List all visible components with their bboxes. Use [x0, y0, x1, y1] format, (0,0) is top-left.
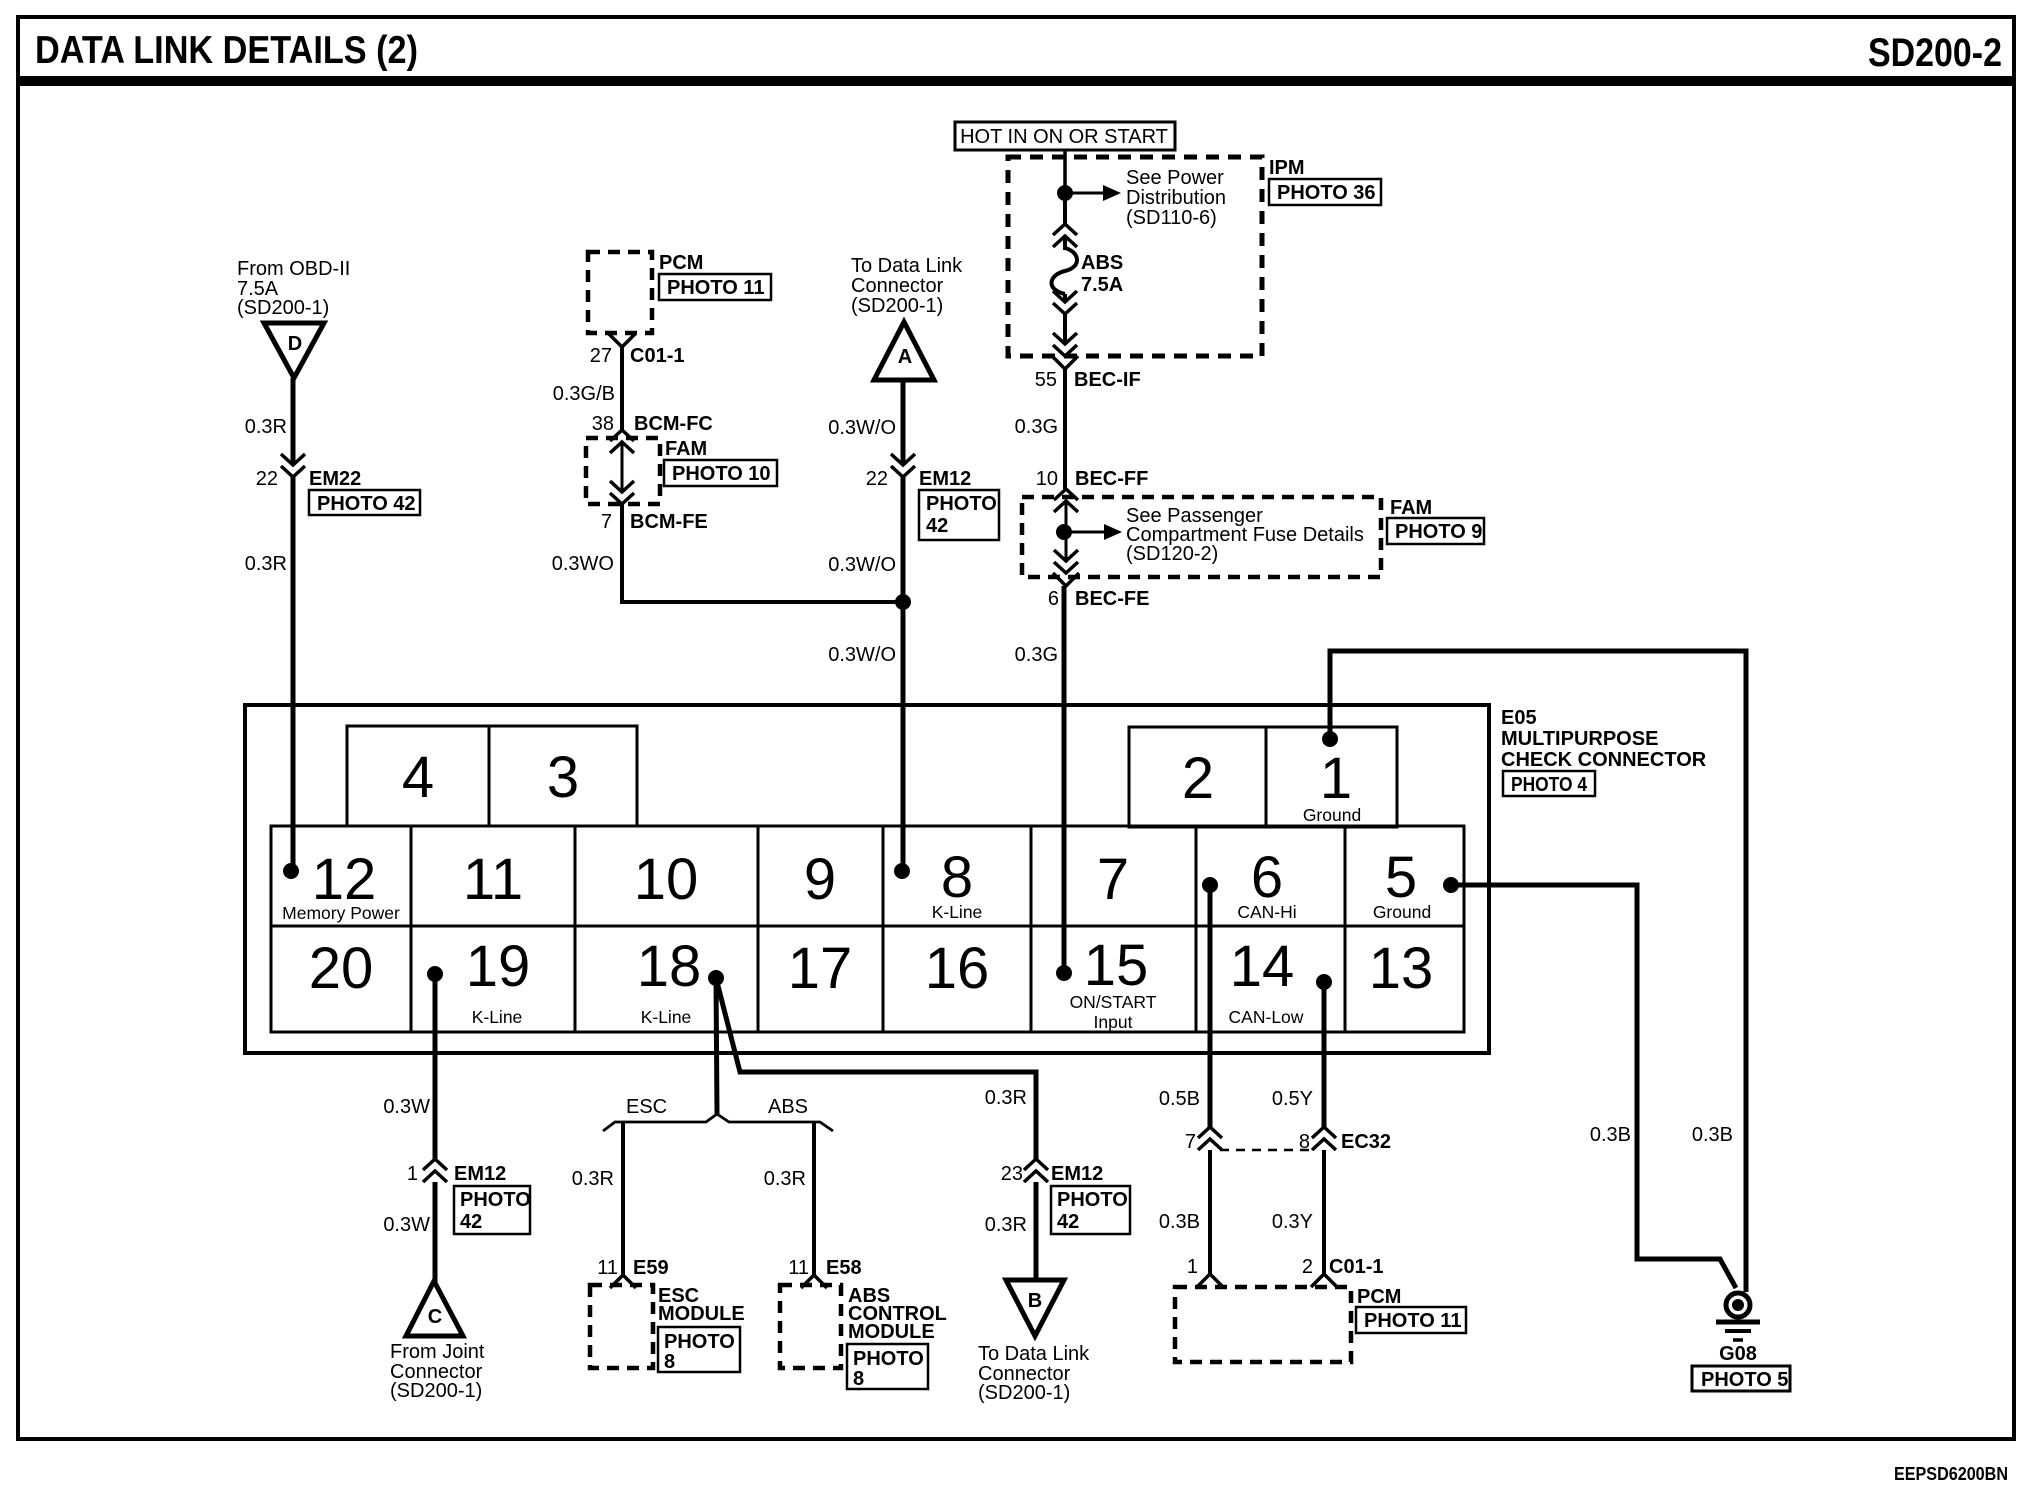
svg-text:11: 11: [463, 847, 523, 912]
photo ref PHOTO 8: [847, 1344, 928, 1389]
svg-text:9: 9: [804, 847, 836, 912]
svg-text:Ground: Ground: [1373, 902, 1431, 922]
svg-text:K-Line: K-Line: [472, 1007, 523, 1027]
svg-text:BEC-FE: BEC-FE: [1075, 588, 1149, 610]
svg-text:42: 42: [1057, 1211, 1079, 1233]
svg-text:PHOTO: PHOTO: [853, 1348, 924, 1370]
svg-text:FAM: FAM: [1390, 497, 1432, 519]
photo ref PHOTO 10: [664, 460, 777, 486]
svg-text:0.3W: 0.3W: [383, 1214, 430, 1236]
wire A down to EM12: [901, 380, 906, 465]
svg-text:(SD110-6): (SD110-6): [1126, 207, 1217, 229]
svg-text:PHOTO 10: PHOTO 10: [672, 463, 771, 485]
svg-text:E58: E58: [826, 1257, 862, 1279]
pin 6 junction dot: [1202, 877, 1218, 893]
svg-text:MODULE: MODULE: [848, 1321, 935, 1343]
connector BEC-IF pin 55: [1053, 333, 1077, 356]
svg-text:B: B: [1028, 1290, 1042, 1312]
svg-text:0.3B: 0.3B: [1590, 1124, 1631, 1146]
wire pin 6 down to EC32: [1208, 885, 1213, 1127]
svg-text:0.3R: 0.3R: [985, 1087, 1027, 1109]
header divider bar: [18, 76, 2014, 86]
svg-text:C01-1: C01-1: [1329, 1256, 1383, 1278]
svg-text:PHOTO: PHOTO: [460, 1189, 531, 1211]
svg-text:8: 8: [853, 1368, 864, 1390]
svg-text:8: 8: [941, 845, 973, 910]
svg-text:10: 10: [634, 847, 699, 912]
svg-text:22: 22: [866, 468, 888, 490]
svg-text:PHOTO 11: PHOTO 11: [1364, 1310, 1461, 1332]
connector BCM-FE pin 7: [610, 481, 634, 504]
svg-text:IPM: IPM: [1269, 157, 1305, 179]
photo ref PHOTO 9: [1387, 518, 1484, 544]
connector triangle D: [264, 323, 324, 378]
wire C01-1 to BCM-FC: [620, 347, 624, 430]
svg-text:BEC-FF: BEC-FF: [1075, 468, 1148, 490]
module PCM (dashed box): [588, 252, 652, 333]
wire pin 1 up and right to ground: [1330, 651, 1746, 1292]
svg-text:EEPSD6200BN: EEPSD6200BN: [1894, 1464, 2008, 1484]
pin 8 junction dot: [894, 863, 910, 879]
svg-text:20: 20: [309, 936, 374, 1001]
svg-text:38: 38: [592, 413, 614, 435]
svg-text:ABS: ABS: [1081, 252, 1123, 274]
svg-text:FAM: FAM: [665, 438, 707, 460]
svg-text:Memory Power: Memory Power: [282, 903, 400, 923]
E05 main grid: [271, 826, 1464, 1032]
module ABS (dashed box): [780, 1285, 841, 1368]
connector triangle B: [1006, 1280, 1064, 1336]
svg-text:G08: G08: [1719, 1343, 1757, 1365]
svg-text:CAN-Low: CAN-Low: [1229, 1007, 1304, 1027]
svg-text:PHOTO: PHOTO: [1057, 1189, 1128, 1211]
power label HOT IN ON OR START: [955, 122, 1175, 150]
connector EM22 pin 22: [281, 454, 305, 477]
connector triangle A: [874, 322, 934, 380]
wire through FAM: [621, 442, 624, 492]
wire pin 14 down to EC32: [1322, 982, 1327, 1127]
svg-text:0.3R: 0.3R: [245, 553, 287, 575]
connector triangle C: [406, 1281, 463, 1336]
svg-text:K-Line: K-Line: [641, 1007, 692, 1027]
photo ref PHOTO 36: [1269, 179, 1381, 205]
svg-text:From Joint: From Joint: [390, 1341, 485, 1363]
svg-text:Connector: Connector: [851, 275, 944, 297]
wire BEC-IF to BEC-FF: [1063, 369, 1067, 489]
svg-text:0.3G: 0.3G: [1015, 644, 1058, 666]
connector BCM-FC pin 38: [610, 430, 634, 453]
photo ref PHOTO 42: [454, 1186, 530, 1234]
svg-text:0.3W/O: 0.3W/O: [828, 644, 896, 666]
wire pin 5 right and down to ground: [1451, 885, 1736, 1288]
svg-text:PCM: PCM: [659, 252, 703, 274]
wire to E58: [812, 1122, 816, 1275]
svg-text:17: 17: [788, 936, 853, 1001]
svg-text:13: 13: [1369, 936, 1434, 1001]
svg-text:DATA LINK DETAILS (2): DATA LINK DETAILS (2): [35, 29, 418, 72]
svg-text:EM12: EM12: [919, 468, 971, 490]
svg-text:0.3W/O: 0.3W/O: [828, 417, 896, 439]
svg-text:PHOTO: PHOTO: [664, 1331, 735, 1353]
svg-text:To Data Link: To Data Link: [851, 255, 963, 277]
svg-text:PCM: PCM: [1357, 1286, 1401, 1308]
svg-text:7: 7: [1185, 1131, 1196, 1153]
svg-text:14: 14: [1230, 934, 1295, 999]
svg-text:(SD200-1): (SD200-1): [390, 1380, 482, 1402]
svg-text:0.3R: 0.3R: [245, 416, 287, 438]
svg-text:22: 22: [256, 468, 278, 490]
module IPM (dashed box): [1008, 157, 1262, 356]
connector E59 pin 11: [610, 1275, 636, 1288]
svg-text:0.3B: 0.3B: [1692, 1124, 1733, 1146]
fuse ABS 7.5A: [1063, 193, 1067, 224]
svg-text:BCM-FC: BCM-FC: [634, 413, 713, 435]
svg-text:0.3Y: 0.3Y: [1272, 1211, 1313, 1233]
connector C01-1 pin 1: [1197, 1274, 1223, 1287]
module PCM bottom (dashed box): [1175, 1287, 1351, 1362]
svg-text:1: 1: [407, 1163, 418, 1185]
wire pin 18 down to split: [716, 978, 717, 1114]
wire EC32-7 to C01-1-1: [1208, 1150, 1212, 1274]
svg-text:0.3G: 0.3G: [1015, 416, 1058, 438]
svg-text:SD200-2: SD200-2: [1868, 31, 2002, 75]
wire pin 18 diagonal to EM12 pin 23: [716, 978, 1036, 1159]
wire HOT to IPM: [1063, 150, 1067, 193]
connector EC32 pin 8: [1312, 1127, 1336, 1150]
svg-text:E59: E59: [633, 1257, 669, 1279]
ground symbol G08: [1726, 1293, 1750, 1317]
wire pin 19 down to EM12: [433, 974, 438, 1159]
connector E58 pin 11: [801, 1275, 827, 1288]
photo ref PHOTO 11: [659, 274, 771, 300]
connector C01-1 pin 2: [1311, 1274, 1337, 1287]
wire to E59: [621, 1122, 625, 1275]
svg-text:HOT IN ON OR START: HOT IN ON OR START: [960, 126, 1168, 148]
wire EM12 to pin 8: [901, 477, 906, 871]
connector EM12 pin 23: [1024, 1159, 1048, 1182]
svg-text:2: 2: [1182, 746, 1214, 811]
connector EC32 pin 7: [1198, 1127, 1222, 1150]
photo ref PHOTO 42: [309, 490, 420, 515]
svg-text:Input: Input: [1094, 1012, 1133, 1032]
svg-text:0.3W: 0.3W: [383, 1096, 430, 1118]
svg-text:0.3G/B: 0.3G/B: [553, 383, 615, 405]
svg-text:E05: E05: [1501, 707, 1537, 729]
photo ref PHOTO 8: [658, 1327, 740, 1372]
E05 top cell box pins 2-1: [1129, 727, 1397, 827]
svg-text:BCM-FE: BCM-FE: [630, 511, 708, 533]
svg-text:0.3R: 0.3R: [572, 1168, 614, 1190]
svg-text:5: 5: [1385, 845, 1417, 910]
svg-text:(SD200-1): (SD200-1): [237, 297, 329, 319]
svg-text:PHOTO 5: PHOTO 5: [1701, 1369, 1788, 1391]
svg-text:6: 6: [1048, 588, 1059, 610]
photo ref PHOTO 11: [1356, 1307, 1466, 1333]
svg-text:PHOTO 11: PHOTO 11: [667, 277, 764, 299]
svg-text:CAN-Hi: CAN-Hi: [1237, 902, 1296, 922]
svg-text:7: 7: [1097, 847, 1129, 912]
wire EM12 to triangle C: [433, 1182, 438, 1283]
svg-text:D: D: [288, 333, 302, 355]
svg-text:55: 55: [1035, 369, 1057, 391]
svg-text:7.5A: 7.5A: [1081, 274, 1123, 296]
connector BEC-FF pin 10: [1054, 489, 1078, 512]
pin 15 junction dot: [1056, 965, 1072, 981]
svg-text:18: 18: [637, 934, 702, 999]
svg-text:ESC: ESC: [626, 1096, 667, 1118]
svg-text:From OBD-II: From OBD-II: [237, 258, 350, 280]
svg-text:ON/START: ON/START: [1070, 992, 1157, 1012]
svg-text:1: 1: [1187, 1256, 1198, 1278]
svg-text:6: 6: [1251, 845, 1283, 910]
svg-text:C: C: [428, 1306, 442, 1328]
svg-text:EC32: EC32: [1341, 1131, 1391, 1153]
svg-text:Ground: Ground: [1303, 805, 1361, 825]
svg-text:8: 8: [664, 1351, 675, 1373]
svg-text:27: 27: [590, 345, 612, 367]
svg-text:7: 7: [601, 511, 612, 533]
svg-text:42: 42: [926, 515, 948, 537]
svg-text:4: 4: [402, 745, 434, 810]
wire EM12 to triangle B: [1034, 1182, 1039, 1282]
E05 top cell box pins 4-3: [347, 726, 637, 826]
wire split brace ESC/ABS: [603, 1114, 717, 1131]
pin 1 junction dot: [1322, 731, 1338, 747]
svg-text:PHOTO 42: PHOTO 42: [317, 493, 416, 515]
svg-text:3: 3: [547, 745, 579, 810]
svg-text:To Data Link: To Data Link: [978, 1343, 1090, 1365]
svg-text:8: 8: [1299, 1131, 1310, 1153]
svg-text:11: 11: [788, 1257, 809, 1279]
wire BEC-FE to pin 15: [1062, 586, 1067, 973]
svg-text:PHOTO 9: PHOTO 9: [1395, 521, 1482, 543]
photo ref PHOTO 4: [1503, 771, 1595, 796]
svg-text:16: 16: [925, 936, 990, 1001]
wire BCM-FE down and right to junction: [620, 504, 624, 600]
svg-text:0.5Y: 0.5Y: [1272, 1088, 1313, 1110]
svg-text:MODULE: MODULE: [658, 1303, 745, 1325]
connector BEC-FE pin 6: [1054, 550, 1078, 573]
photo ref PHOTO 42: [1051, 1186, 1130, 1234]
pin 12 junction dot: [283, 863, 299, 879]
junction dot in FAM: [1056, 524, 1072, 540]
svg-text:0.5B: 0.5B: [1159, 1088, 1200, 1110]
EC32 dashed pair link: [1220, 1149, 1312, 1152]
wire through FAM: [1065, 501, 1068, 561]
svg-text:EM22: EM22: [309, 468, 361, 490]
connector C01-1 pin 27: [609, 334, 635, 347]
arrow to See Passenger: [1064, 531, 1104, 534]
pin 19 junction dot: [427, 966, 443, 982]
svg-text:A: A: [898, 346, 912, 368]
svg-text:PHOTO: PHOTO: [926, 493, 997, 515]
svg-text:(SD200-1): (SD200-1): [978, 1382, 1070, 1404]
svg-text:1: 1: [1320, 746, 1352, 811]
svg-text:ABS: ABS: [768, 1096, 808, 1118]
svg-text:K-Line: K-Line: [932, 902, 983, 922]
photo ref PHOTO 42: [919, 490, 999, 540]
svg-text:0.3R: 0.3R: [764, 1168, 806, 1190]
pin 18 junction dot: [708, 970, 724, 986]
svg-text:CHECK CONNECTOR: CHECK CONNECTOR: [1501, 749, 1707, 771]
svg-text:BEC-IF: BEC-IF: [1074, 369, 1141, 391]
connector E05 outer box: [245, 705, 1489, 1053]
svg-text:PHOTO 36: PHOTO 36: [1277, 182, 1376, 204]
junction dot in IPM: [1057, 185, 1073, 201]
svg-text:15: 15: [1084, 933, 1149, 998]
svg-text:Distribution: Distribution: [1126, 187, 1226, 209]
pin 5 junction dot: [1443, 877, 1459, 893]
svg-text:C01-1: C01-1: [630, 345, 684, 367]
svg-text:0.3W/O: 0.3W/O: [828, 554, 896, 576]
svg-text:0.3WO: 0.3WO: [552, 553, 614, 575]
wire EC32-8 to C01-1-2: [1322, 1150, 1326, 1274]
photo ref PHOTO 5: [1692, 1366, 1790, 1391]
module FAM (dashed box): [586, 438, 660, 504]
svg-text:10: 10: [1036, 468, 1058, 490]
svg-text:EM12: EM12: [454, 1163, 506, 1185]
svg-text:19: 19: [466, 934, 531, 999]
svg-text:MULTIPURPOSE: MULTIPURPOSE: [1501, 728, 1658, 750]
svg-text:42: 42: [460, 1211, 482, 1233]
module ESC (dashed box): [590, 1285, 653, 1368]
svg-text:See Power: See Power: [1126, 167, 1224, 189]
svg-text:11: 11: [597, 1257, 618, 1279]
wire EM22 to pin 12: [291, 477, 296, 871]
connector EM12 pin 1: [423, 1159, 447, 1182]
junction dot wires A/BCM: [895, 594, 911, 610]
connector EM12 pin 22: [891, 454, 915, 477]
svg-text:0.3B: 0.3B: [1159, 1211, 1200, 1233]
svg-text:EM12: EM12: [1051, 1163, 1103, 1185]
wire D down to EM22: [291, 378, 296, 465]
svg-text:2: 2: [1302, 1256, 1313, 1278]
arrow to See Power Distribution: [1065, 192, 1103, 195]
pin 14 junction dot: [1316, 974, 1332, 990]
svg-text:PHOTO 4: PHOTO 4: [1511, 774, 1588, 796]
svg-text:(SD120-2): (SD120-2): [1126, 543, 1218, 565]
module FAM lower (dashed box): [1022, 497, 1381, 577]
svg-text:0.3R: 0.3R: [985, 1214, 1027, 1236]
svg-text:(SD200-1): (SD200-1): [851, 295, 943, 317]
svg-text:23: 23: [1001, 1163, 1023, 1185]
